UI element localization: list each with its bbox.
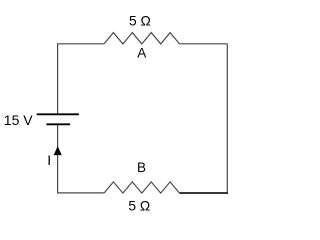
wire: right side [226,44,228,193]
svg-text:15 V: 15 V [4,112,33,128]
wire: bottom right segment [180,192,229,194]
svg-text:5 Ω: 5 Ω [129,13,151,28]
wire: bottom left segment and left side bottom (corner to battery) [58,124,104,193]
resistor B (bottom zigzag) [104,182,180,193]
svg-text:B: B [137,160,146,175]
current arrow (points up along left wire) [54,146,62,155]
battery V1 short plate (-) [46,123,70,125]
svg-text:A: A [137,46,146,61]
resistor A (top zigzag) [104,33,180,44]
wire: left side top (battery to top-left corner) and top-left segment [58,44,104,115]
battery V1 long plate (+) [37,113,79,115]
wire: top right segment [180,43,228,45]
svg-text:5 Ω: 5 Ω [128,199,150,214]
svg-text:I: I [47,152,51,168]
